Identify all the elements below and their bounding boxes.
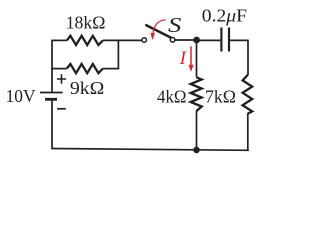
node A (top junction dot)	[193, 37, 200, 44]
svg-text:0.2μF: 0.2μF	[202, 5, 247, 25]
resistor 7k (vertical zigzag)	[243, 75, 253, 114]
switch S: left terminal circle	[142, 38, 147, 43]
wire: top rail left segment	[52, 39, 67, 41]
label 10V	[6, 86, 36, 106]
svg-text:7kΩ: 7kΩ	[205, 86, 236, 106]
wire: node A to capacitor left plate	[196, 39, 220, 41]
battery 10V: negative plate (short thick)	[45, 98, 57, 101]
wire: right vertical upper lead	[247, 40, 249, 75]
label S	[168, 13, 182, 37]
svg-text:10V: 10V	[6, 86, 36, 106]
wire: right vertical of parallel loop	[117, 40, 119, 70]
node B (bottom junction dot)	[193, 147, 200, 154]
wire: 9k branch right lead	[103, 68, 119, 70]
wire: top rail from 18k to switch left terminal	[103, 39, 142, 41]
wire: 4k branch lower lead	[196, 111, 198, 151]
capacitor 0.2uF: left plate	[220, 28, 222, 52]
label 9kΩ	[70, 78, 105, 98]
label 18kΩ	[66, 13, 106, 33]
label −	[57, 108, 66, 110]
svg-text:4kΩ: 4kΩ	[157, 86, 187, 106]
capacitor 0.2uF: right plate	[228, 28, 230, 52]
svg-text:9kΩ: 9kΩ	[70, 78, 105, 98]
wire: 9k branch left lead	[52, 68, 67, 70]
label +	[57, 74, 66, 83]
wire: right vertical lower lead	[247, 113, 249, 150]
wire: left vertical below battery to bottom rail	[51, 101, 53, 149]
wire: 4k branch upper lead	[196, 40, 198, 77]
switch S: lever blade	[146, 25, 170, 37]
current arrow I (red)	[189, 46, 194, 72]
wire: left vertical rail	[51, 40, 53, 92]
resistor 4k (vertical zigzag)	[191, 77, 202, 111]
label 0.2μF	[202, 5, 247, 25]
wire: bottom rail	[51, 149, 249, 151]
wire: switch right terminal to node A	[176, 39, 197, 41]
switch S: right terminal circle	[170, 38, 175, 43]
switch closing arc (red)	[150, 20, 165, 40]
svg-text:S: S	[168, 13, 182, 37]
svg-text:18kΩ: 18kΩ	[66, 13, 106, 33]
wire: capacitor right plate to right corner	[230, 39, 248, 41]
label I (red)	[179, 48, 188, 69]
label 7kΩ	[205, 86, 236, 106]
label 4kΩ	[157, 86, 187, 106]
resistor 18k (horizontal zigzag)	[67, 36, 103, 45]
resistor 9k (horizontal zigzag)	[67, 64, 103, 73]
battery 10V: positive plate (long)	[40, 92, 63, 94]
